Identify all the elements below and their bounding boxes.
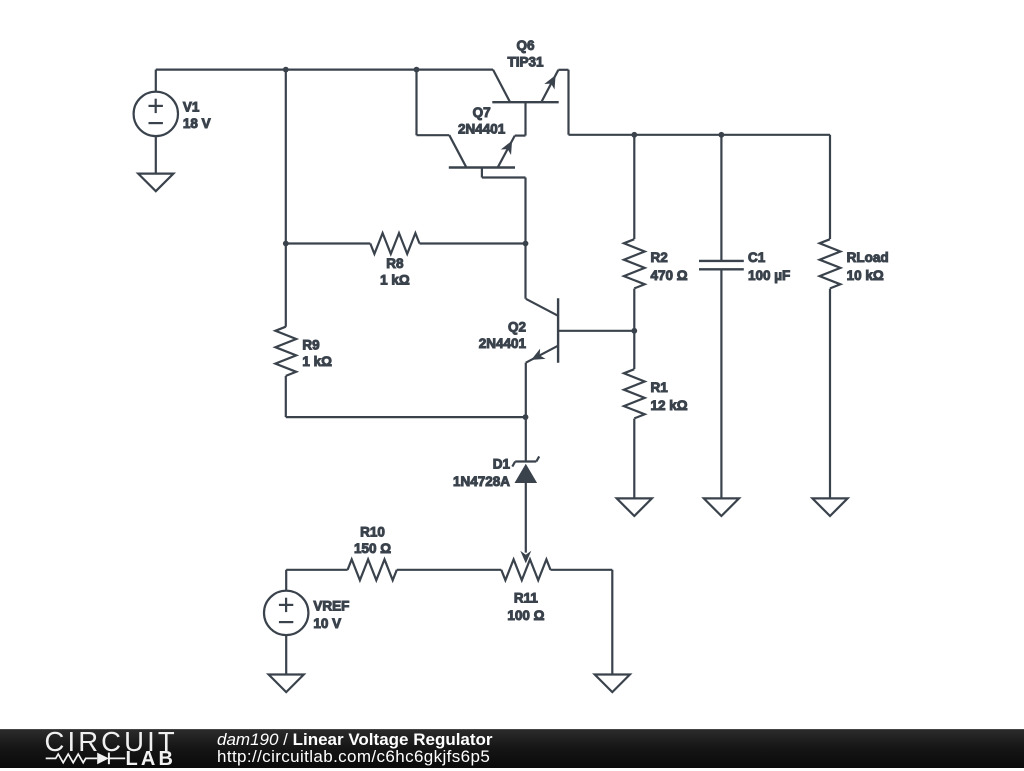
node junction top rail / R9 branch bbox=[283, 67, 289, 73]
transistor Q6 bbox=[492, 70, 558, 103]
label Q7 2N4401 bbox=[458, 105, 506, 137]
label C1 100 uF bbox=[748, 250, 790, 283]
wire top rail V1 to Q6 collector bbox=[156, 68, 493, 70]
voltage source VREF bbox=[264, 570, 308, 675]
node junction R8 left bbox=[283, 241, 289, 247]
resistor R10 bbox=[348, 559, 502, 580]
ground below R11 right bbox=[595, 675, 630, 693]
ground below C1 bbox=[704, 498, 739, 516]
wire branch x=286 down to R8 row bbox=[285, 70, 287, 244]
label Q6 TIP31 bbox=[507, 38, 544, 69]
voltage source V1 bbox=[134, 70, 178, 174]
ground below V1 bbox=[138, 174, 173, 192]
label D1 1N4728A bbox=[453, 456, 511, 489]
transistor Q2 bbox=[526, 298, 635, 417]
CircuitLab footer bar bbox=[0, 0, 1, 1]
label R8 1 kOhm bbox=[380, 256, 410, 288]
footer url line bbox=[217, 747, 490, 767]
label R9 1 kOhm bbox=[302, 337, 332, 369]
node junction top rail / Q7 collector branch bbox=[414, 67, 420, 73]
label VREF 10 V bbox=[313, 598, 349, 631]
node junction D1 top bbox=[523, 414, 529, 420]
resistor R2 bbox=[624, 135, 645, 331]
wire R9 bottom to D1 node bbox=[286, 416, 526, 418]
label R1 12 kOhm bbox=[651, 380, 688, 413]
resistor R1 bbox=[624, 331, 645, 499]
label R10 150 Ohm bbox=[354, 525, 391, 557]
wire Q7 collector branch bbox=[417, 70, 450, 136]
ground below VREF bbox=[269, 675, 304, 693]
wiper arrow D1 to R11 bbox=[520, 551, 531, 564]
node junction R2/R1/Q2 base bbox=[631, 328, 637, 334]
footer title line bbox=[217, 730, 493, 750]
label R11 100 Ohm bbox=[507, 590, 544, 623]
wire VREF to R10 bbox=[286, 569, 347, 571]
node junction R8 right bbox=[523, 241, 529, 247]
label V1 18 V bbox=[183, 99, 211, 130]
wire Q7 base to R8 row and Q2 collector bbox=[482, 178, 526, 299]
wire output rail bbox=[569, 134, 831, 136]
label RLoad 10 kOhm bbox=[847, 250, 889, 283]
zener diode D1 bbox=[512, 417, 539, 552]
node junction rail / R2 column bbox=[631, 132, 637, 138]
ground below R1 bbox=[617, 498, 652, 516]
logo LAB bbox=[126, 748, 177, 771]
wire R8 row left lead bbox=[286, 242, 371, 244]
logo CIRCUIT bbox=[45, 726, 178, 758]
wire Q6 emitter to output rail bbox=[558, 70, 568, 135]
resistor RLoad bbox=[820, 135, 841, 499]
resistor R9 bbox=[275, 244, 296, 418]
ground below RLoad bbox=[812, 498, 847, 516]
capacitor C1 bbox=[699, 135, 744, 499]
potentiometer R11 bbox=[501, 559, 612, 580]
node junction rail / C1 column bbox=[719, 132, 725, 138]
transistor Q7 bbox=[449, 135, 515, 177]
label Q2 2N4401 bbox=[479, 320, 527, 352]
resistor R8 bbox=[370, 233, 525, 254]
wire Q7 emitter to Q6 base bbox=[515, 102, 526, 135]
label R2 470 Ohm bbox=[651, 250, 688, 283]
wire R11 right to ground bbox=[611, 570, 613, 675]
